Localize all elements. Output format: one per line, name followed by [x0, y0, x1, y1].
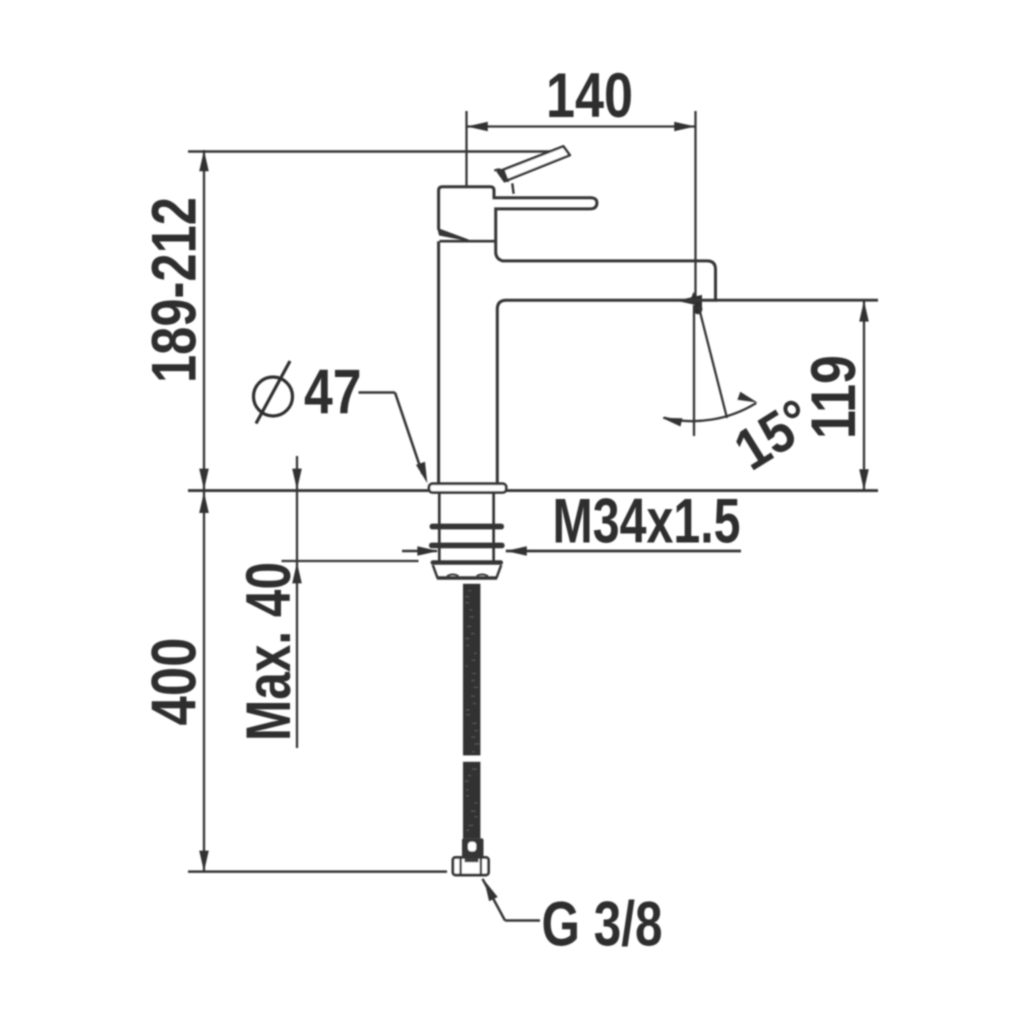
wire diameter-47 leader diagonal [395, 393, 423, 475]
svg-text:140: 140 [546, 61, 633, 131]
arrow down at deck (189-212 bottom) [199, 469, 209, 490]
svg-text:M34x1.5: M34x1.5 [553, 487, 741, 557]
washer 1 [430, 524, 504, 530]
faucet body seam wedge [438, 229, 468, 240]
wire 140 left extension [465, 111, 467, 187]
dimension 119 line [863, 300, 865, 490]
wire M34 left arrow line [402, 550, 437, 552]
washer 2 [429, 543, 505, 549]
wire spout outlet extension line (right) [716, 299, 879, 302]
mounting nut top [431, 560, 503, 565]
mounting nut body [433, 565, 438, 578]
svg-text:47: 47 [304, 358, 362, 428]
wire max-40 depth line [282, 560, 419, 562]
svg-text:Max. 40: Max. 40 [234, 562, 304, 741]
wire mounting deck line [188, 489, 878, 492]
dimension 189-212 vertical line [203, 150, 205, 872]
svg-text:G 3/8: G 3/8 [542, 890, 663, 960]
lever swing hook mark [494, 170, 500, 171]
threaded shank right edge [492, 493, 495, 562]
faucet body outline [439, 187, 716, 484]
wire G3/8 leader [484, 880, 498, 901]
arrow down at hose end (400 bottom) [199, 851, 209, 872]
wire 15-degree tilted stream line [699, 306, 728, 418]
hose end nut G3/8 [453, 857, 489, 875]
lever raised position [498, 146, 570, 181]
dimension max40 vertical line [296, 456, 298, 748]
wire diameter-47 leader dash [359, 391, 396, 394]
flexible hose lower segment [463, 762, 480, 839]
svg-text:189-212: 189-212 [140, 197, 210, 383]
nut facet marks [447, 574, 488, 576]
faucet body ledge [440, 240, 495, 243]
wire 140 right extension / outlet axis [694, 111, 696, 298]
threaded shank left edge [438, 493, 441, 562]
hose end ferrule [462, 838, 484, 857]
dimension 140 line [467, 125, 696, 127]
wire vertical stream line [693, 305, 695, 436]
arrow up at top line [199, 150, 209, 171]
arrow up at deck (400 top) [199, 492, 209, 513]
wire max-height extension line (top, 212 position) [188, 150, 553, 153]
wire M34 right arrow line / underline [506, 550, 741, 553]
symbol diameter [254, 377, 293, 416]
base flange [429, 484, 506, 493]
svg-text:400: 400 [140, 638, 210, 726]
node spout outlet point (filled arrows) [677, 295, 703, 307]
arc 15-degree swing [663, 403, 756, 421]
faucet body left edge [437, 241, 440, 484]
wire hose-end extension line (400 bottom) [188, 870, 447, 873]
flexible hose upper segment [463, 584, 480, 756]
hose braid texture [465, 590, 479, 831]
